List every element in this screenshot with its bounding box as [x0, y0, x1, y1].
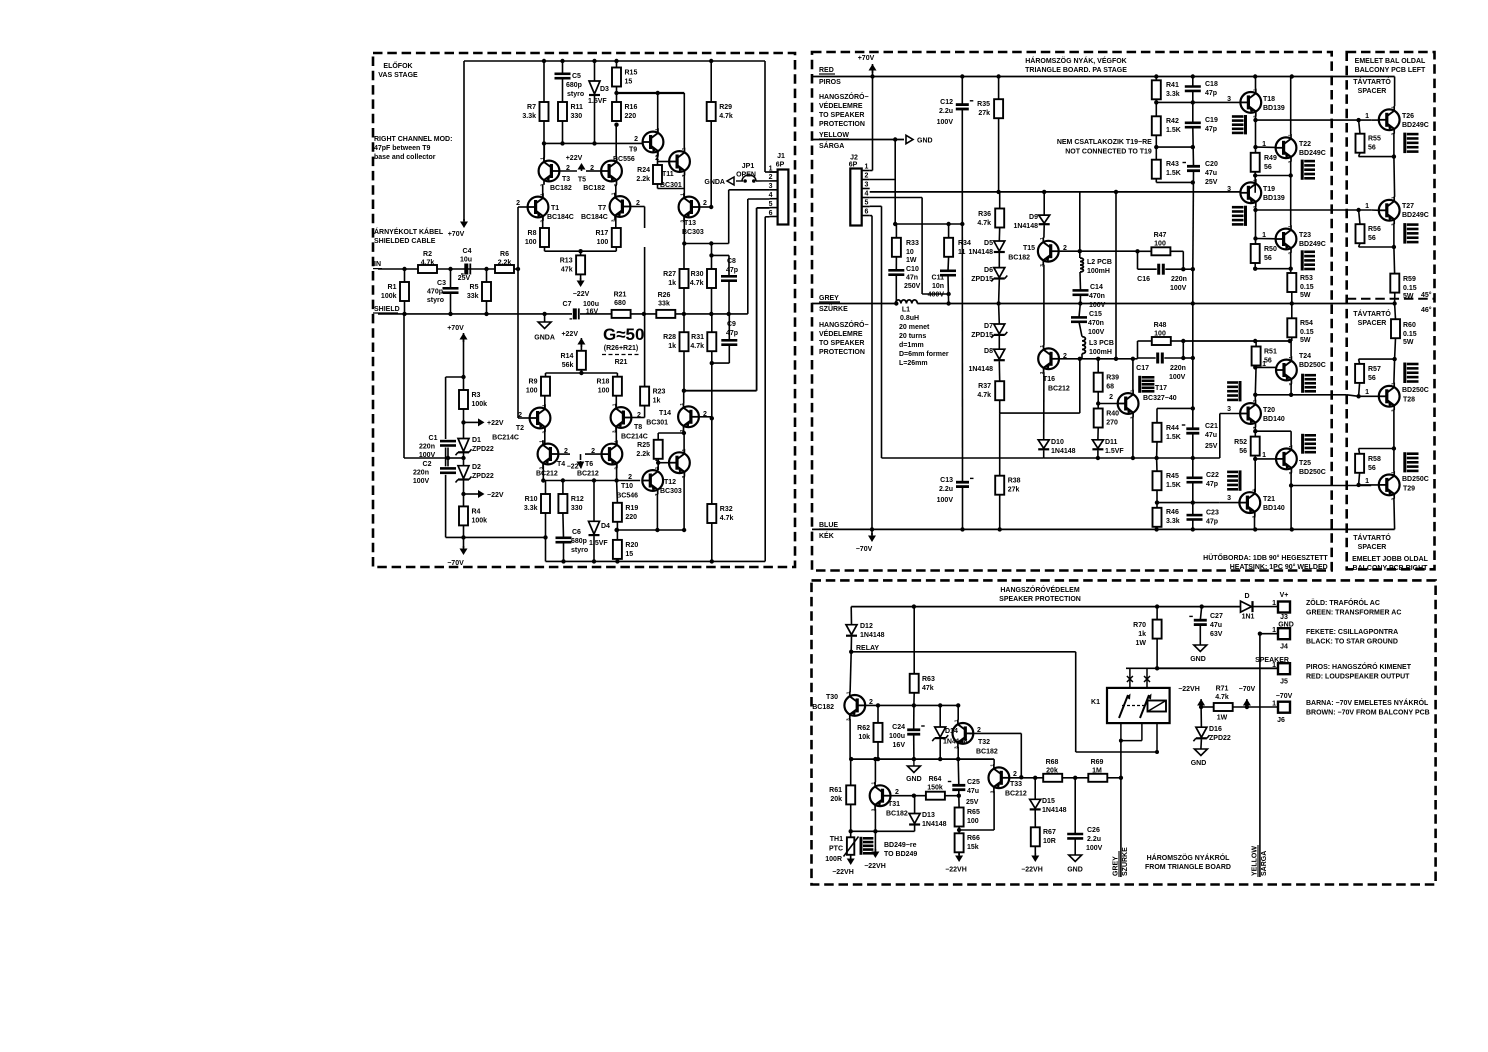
svg-text:1: 1	[1039, 237, 1044, 240]
svg-text:R2: R2	[423, 251, 432, 258]
wire R71 line	[1201, 706, 1277, 708]
svg-text:−22VH: −22VH	[1178, 686, 1200, 693]
wire R52 bottom node	[1254, 456, 1256, 493]
wire pin5 riser	[684, 208, 770, 391]
svg-text:R14: R14	[561, 353, 574, 360]
block border: ELOFOK / VAS STAGE (preamp+VAS) box	[373, 53, 795, 567]
wire T3-T5 base link	[560, 170, 602, 172]
wire RELAY line	[851, 652, 1157, 752]
power flag -70V (R71)	[1239, 686, 1256, 707]
ground GND (C24)	[906, 759, 922, 783]
pin2 labels T1 T7	[516, 200, 640, 207]
svg-text:2: 2	[518, 412, 522, 419]
svg-text:T10: T10	[621, 483, 633, 490]
junction dot R10/R4	[543, 535, 547, 539]
wire R56 top	[1359, 210, 1360, 224]
svg-text:3: 3	[1227, 406, 1231, 413]
wire pin4 riser	[748, 199, 770, 314]
svg-text:1: 1	[1365, 478, 1369, 485]
resistor R34	[944, 238, 971, 257]
svg-text:6: 6	[865, 208, 869, 215]
wire T9 emitter	[657, 93, 659, 132]
svg-text:33k: 33k	[467, 293, 479, 300]
svg-text:3: 3	[1227, 495, 1231, 502]
svg-text:R32: R32	[720, 506, 733, 513]
junction dot R55 top	[1356, 118, 1360, 122]
power flag +70V (triangle board)	[858, 55, 877, 77]
svg-text:47p: 47p	[1206, 481, 1218, 488]
svg-text:R43: R43	[1166, 161, 1179, 168]
svg-text:T33: T33	[1010, 781, 1022, 788]
svg-text:styro: styro	[571, 547, 588, 554]
wire T31 col	[874, 759, 876, 782]
svg-text:R38: R38	[1008, 478, 1021, 485]
wire T26 e col	[1393, 133, 1396, 197]
svg-text:C27: C27	[1210, 613, 1223, 620]
diode D12 1N4148	[846, 623, 885, 639]
power flag -22VH (R71)	[1178, 686, 1205, 707]
junction dots ladder col	[1191, 100, 1195, 149]
svg-text:5W: 5W	[1300, 292, 1311, 299]
power flag -22VH (TH1)	[832, 856, 855, 876]
transistor T19 BD139	[1227, 179, 1285, 209]
wire R53 bottom to output	[1291, 292, 1293, 304]
wire J4 line	[1260, 633, 1277, 635]
svg-text:T22: T22	[1299, 141, 1311, 148]
inductor L3 PCB 100mH	[1082, 337, 1114, 356]
svg-text:1k: 1k	[668, 343, 676, 350]
power flag -22VH (R67)	[1021, 853, 1043, 874]
wire +70V top rail	[464, 60, 765, 62]
wire R44 bottom	[1156, 442, 1158, 458]
wire to J3	[1253, 606, 1278, 608]
transistor T8 BC214C	[611, 403, 648, 440]
svg-text:R39: R39	[1106, 375, 1119, 382]
wire D13 leads	[851, 796, 915, 832]
svg-text:R50: R50	[1264, 246, 1277, 253]
block border: speaker protection box	[812, 580, 1436, 884]
svg-text:400V: 400V	[928, 292, 945, 299]
wire J2 pin1 to +70V	[870, 77, 873, 171]
svg-text:BD250C: BD250C	[1402, 387, 1429, 394]
svg-text:16V: 16V	[893, 742, 906, 749]
wire J1 pin1 riser	[765, 61, 778, 172]
svg-text:5W: 5W	[1403, 339, 1414, 346]
svg-text:1: 1	[1262, 232, 1266, 239]
junction dot R61 bottom	[849, 829, 853, 833]
junction dot grey col	[1119, 776, 1123, 780]
svg-text:+22V: +22V	[561, 331, 578, 338]
svg-text:C16: C16	[1137, 276, 1150, 283]
capacitor C20 47u	[1183, 161, 1218, 186]
svg-text:1N4148: 1N4148	[922, 821, 947, 828]
resistor R41	[1152, 80, 1180, 99]
resistor R18	[597, 377, 622, 396]
wire T18e to balcony (T26 base)	[1256, 119, 1372, 121]
svg-text:C17: C17	[1136, 365, 1149, 372]
junction dots R33 rail	[893, 222, 965, 226]
svg-text:0.15: 0.15	[1403, 331, 1417, 338]
svg-text:1: 1	[1365, 203, 1369, 210]
resistor R8	[525, 228, 549, 247]
svg-text:−22VH: −22VH	[945, 867, 967, 874]
svg-text:1.5VF: 1.5VF	[589, 540, 608, 547]
svg-text:BD250C: BD250C	[1299, 362, 1326, 369]
note NEM CSATLAKOZIK T19-RE	[1057, 139, 1152, 155]
svg-text:6P: 6P	[849, 162, 858, 169]
svg-text:R6: R6	[500, 251, 509, 258]
wire R58 bottom	[1359, 473, 1360, 485]
svg-text:JP1: JP1	[742, 163, 755, 170]
wire T30 emitter	[849, 719, 851, 759]
svg-text:D12: D12	[860, 623, 873, 630]
svg-text:45°: 45°	[1421, 291, 1432, 299]
svg-text:2: 2	[703, 200, 707, 207]
junction dot R45R46	[1155, 500, 1159, 504]
junction dots lower bus	[541, 478, 619, 482]
svg-text:BD250C: BD250C	[1402, 476, 1429, 483]
wire T15T16 base line ext	[1080, 250, 1138, 252]
junction dot T31 e	[873, 829, 877, 833]
svg-text:TÁVTARTÓ: TÁVTARTÓ	[1353, 77, 1391, 86]
wire D9/T15 col	[1043, 192, 1046, 458]
wire D12 col	[850, 607, 852, 652]
svg-text:1: 1	[845, 691, 850, 694]
svg-text:5W: 5W	[1300, 337, 1311, 344]
svg-text:R9: R9	[529, 379, 538, 386]
ground GND flag (yellow)	[906, 135, 933, 144]
svg-text:R4: R4	[472, 508, 481, 515]
capacitor C5	[555, 73, 585, 98]
connector J6 -70V	[1272, 693, 1293, 724]
svg-text:1.5VF: 1.5VF	[1105, 448, 1124, 455]
wire R62 leads	[877, 705, 879, 759]
ground GND (C27)	[1190, 645, 1207, 663]
svg-text:R8: R8	[528, 230, 537, 237]
transistor T10 BC546	[616, 466, 663, 499]
svg-text:100u: 100u	[889, 733, 905, 740]
svg-text:R10: R10	[525, 496, 538, 503]
resistor R11	[558, 102, 583, 121]
heatsink TH1	[861, 837, 873, 855]
svg-text:R49: R49	[1264, 155, 1277, 162]
capacitor C4 (10u inline)	[458, 248, 472, 282]
svg-text:BC184C: BC184C	[581, 214, 608, 221]
wire R15/R16 node thick	[617, 92, 685, 94]
capacitor C25 47u 25V	[948, 779, 980, 806]
svg-text:PIROS: PIROS	[819, 79, 841, 86]
wire R27 bottom col	[683, 288, 685, 314]
wire T5 collector	[615, 125, 617, 158]
resistor R42	[1152, 116, 1181, 135]
svg-text:T1: T1	[551, 205, 559, 212]
power tap +22V (right arrow)	[476, 418, 504, 427]
svg-text:−22VH: −22VH	[1021, 867, 1043, 874]
resistor R66	[955, 833, 980, 852]
capacitor C7 (100u inline on shield)	[563, 301, 599, 319]
power flag -70V (blue)	[856, 529, 876, 553]
wire T33 col	[993, 759, 995, 764]
wire R14 bottom rail	[546, 370, 618, 373]
svg-text:220n: 220n	[1170, 365, 1186, 372]
svg-text:1k: 1k	[653, 398, 661, 405]
svg-text:15: 15	[625, 551, 633, 558]
label RED PIROS	[819, 67, 841, 86]
diode D13 1N4148	[909, 812, 947, 828]
wire T25 e down	[1290, 472, 1292, 529]
svg-text:D3: D3	[600, 86, 609, 93]
transistor T7 BC184C	[581, 192, 630, 222]
svg-text:R45: R45	[1166, 473, 1179, 480]
svg-text:−70V: −70V	[447, 560, 464, 567]
svg-text:GNDA: GNDA	[534, 335, 555, 342]
svg-text:−70V: −70V	[1276, 693, 1293, 700]
svg-text:220n: 220n	[1171, 276, 1187, 283]
svg-text:46°: 46°	[1421, 306, 1432, 314]
svg-text:250V: 250V	[904, 283, 921, 290]
wire T21 base bus	[1157, 502, 1219, 504]
wire R54 leads	[1291, 304, 1293, 342]
svg-text:100V: 100V	[937, 497, 954, 504]
wire C26 leads	[1074, 778, 1076, 855]
wire ladder column	[1192, 77, 1195, 530]
svg-text:330: 330	[571, 505, 583, 512]
wire T24 col	[1290, 341, 1292, 357]
svg-text:D=6mm former: D=6mm former	[899, 351, 949, 358]
junction dots GREY rail	[894, 301, 1294, 305]
svg-text:100: 100	[597, 239, 609, 246]
svg-text:47p: 47p	[1205, 126, 1217, 133]
svg-text:BROWN: −70V FROM BALCONY PCB: BROWN: −70V FROM BALCONY PCB	[1306, 710, 1430, 717]
junction dots T12/T14 nodes	[656, 431, 686, 465]
label HAROMSZOG NYAKROL	[1145, 853, 1231, 871]
transistor T31 BC182	[870, 782, 908, 818]
note ZOLD TRAFOROL AC	[1306, 598, 1401, 617]
svg-text:R67: R67	[1043, 829, 1056, 836]
svg-text:BALCONY PCB RIGHT: BALCONY PCB RIGHT	[1353, 565, 1429, 572]
junction dot T28 e	[1392, 446, 1396, 450]
junction dot D13 top	[912, 794, 916, 798]
svg-text:4.7k: 4.7k	[690, 343, 704, 350]
svg-text:4: 4	[865, 190, 869, 197]
transistor T24 BD250C	[1262, 353, 1326, 386]
wire T21 e down	[1254, 516, 1256, 529]
wire R22 bottom / R23 top	[644, 247, 646, 387]
resistor R71 4.7k 1W	[1214, 686, 1233, 722]
capacitor C13 2.2u	[937, 477, 974, 504]
transistor T4 BC212	[536, 440, 568, 478]
svg-text:D13: D13	[922, 812, 935, 819]
note PIROS HANGSZORO KIMENET	[1306, 662, 1412, 681]
wire T2 col	[544, 396, 546, 408]
svg-text:C19: C19	[1205, 117, 1218, 124]
svg-text:SPACER: SPACER	[1358, 320, 1387, 327]
capacitor C8	[721, 258, 738, 281]
wire bypass rectangle	[446, 377, 464, 537]
wire T8 e / T6 col	[615, 428, 617, 444]
junction dots T9 base line	[542, 141, 597, 145]
resistor R43	[1152, 160, 1181, 179]
svg-text:SÁRGA: SÁRGA	[1259, 851, 1268, 876]
svg-text:SPACER: SPACER	[1358, 544, 1387, 551]
svg-text:47u: 47u	[1210, 622, 1222, 629]
transistor T27 BD249C	[1365, 196, 1429, 226]
svg-text:BD140: BD140	[1263, 505, 1285, 512]
junction dots BLUE rail	[870, 527, 1294, 531]
svg-text:R53: R53	[1300, 275, 1313, 282]
svg-text:ZPD15: ZPD15	[971, 332, 993, 339]
svg-text:C2: C2	[423, 461, 432, 468]
svg-text:styro: styro	[427, 297, 444, 304]
svg-text:R56: R56	[1368, 226, 1381, 233]
svg-text:+22V: +22V	[566, 155, 583, 162]
junction dots bus458	[1096, 456, 1195, 460]
svg-text:56: 56	[1368, 465, 1376, 472]
wire R34 col	[947, 224, 950, 304]
svg-text:T26: T26	[1402, 113, 1414, 120]
svg-text:100R: 100R	[825, 856, 842, 863]
svg-text:10u: 10u	[460, 257, 472, 264]
transistor T25 BD250C	[1262, 445, 1326, 476]
svg-text:−22V: −22V	[567, 464, 584, 471]
svg-text:0.15: 0.15	[1300, 284, 1314, 291]
power flag -22VH (R66)	[945, 853, 967, 874]
wire BLUE -70V rail	[812, 528, 1395, 530]
block border: balcony PCB box	[1347, 52, 1435, 569]
svg-text:4.7k: 4.7k	[421, 260, 435, 267]
junction dot R57 bottom	[1356, 394, 1360, 398]
junction dot T26 e	[1392, 154, 1396, 158]
svg-text:BC556: BC556	[613, 156, 635, 163]
wire T20e to T25 col	[1255, 431, 1291, 445]
heatsink T24	[1303, 374, 1316, 393]
resistor R57	[1355, 364, 1381, 383]
svg-text:2.2u: 2.2u	[939, 486, 953, 493]
wire T18 base line	[1156, 101, 1240, 103]
svg-text:−22VH: −22VH	[832, 869, 854, 876]
wire T26 base	[1371, 119, 1379, 121]
wire R9 top/R18 top	[546, 373, 618, 377]
svg-text:BD139: BD139	[1263, 195, 1285, 202]
wire T16 base line	[1059, 358, 1137, 360]
power flag -70V (bias chain)	[447, 537, 467, 567]
svg-text:BC182: BC182	[550, 185, 572, 192]
svg-text:2.2k: 2.2k	[498, 260, 512, 267]
svg-text:56: 56	[1368, 145, 1376, 152]
wire T15 base	[1059, 250, 1080, 252]
svg-text:R55: R55	[1368, 136, 1381, 143]
junction dot T13 base	[709, 205, 713, 209]
resistor R68 20k	[1043, 759, 1062, 782]
label YELLOW SARGA rotated	[1252, 845, 1269, 877]
transistor T2 BC214C	[492, 404, 550, 442]
junction dots +70V rail	[870, 74, 1294, 78]
svg-text:D11: D11	[1105, 439, 1118, 446]
resistor R2	[418, 251, 437, 273]
wire pin6 riser	[765, 217, 769, 562]
wire to T29 base	[1291, 485, 1371, 487]
svg-text:D: D	[1244, 593, 1249, 600]
transistor T26 BD249C	[1365, 106, 1429, 136]
svg-text:R15: R15	[625, 70, 638, 77]
svg-text:100V: 100V	[1089, 302, 1106, 309]
svg-text:GND: GND	[1278, 622, 1294, 629]
wire T32 e	[957, 747, 959, 759]
wire T33 base line	[1009, 777, 1043, 779]
svg-text:R13: R13	[560, 257, 573, 264]
transistor T23 BD249C	[1262, 225, 1326, 255]
wire D14 leads	[939, 705, 941, 759]
wire relay contact common	[1126, 667, 1157, 669]
wire T9 col to R24/T11 base	[658, 153, 670, 166]
wire T30 col	[850, 652, 851, 692]
capacitor C6	[556, 529, 589, 554]
transistor T29 BD250C	[1365, 471, 1429, 501]
junction dot R70 bottom	[1155, 666, 1159, 670]
svg-text:6P: 6P	[776, 162, 785, 169]
wire R31 col	[711, 314, 713, 504]
wire T21 base line	[1219, 502, 1239, 504]
transistor T3 BC182	[539, 157, 572, 192]
capacitor C24 100u 16V	[889, 724, 925, 749]
wire T8 col	[615, 396, 617, 407]
resistor R19	[613, 503, 638, 522]
wire T31 base line	[891, 795, 926, 797]
svg-text:C5: C5	[572, 73, 581, 80]
resistor R49	[1251, 153, 1277, 172]
svg-text:R44: R44	[1166, 425, 1179, 432]
wire pin3 riser	[729, 190, 770, 244]
svg-text:2.2k: 2.2k	[636, 176, 650, 183]
junction dot C25 bottom	[957, 794, 961, 798]
wire T23 base	[1256, 238, 1276, 240]
wire C5/R7/R11/D3/R15/R29 leads	[544, 61, 711, 207]
wire R19/R20 node	[617, 529, 685, 531]
svg-text:47pF between T9: 47pF between T9	[374, 145, 431, 152]
wire T24 e	[1255, 384, 1331, 395]
svg-text:FEKETE: CSILLAGPONTRA: FEKETE: CSILLAGPONTRA	[1306, 629, 1398, 636]
wire T31 e	[874, 809, 876, 852]
junction dots bottom rail	[561, 559, 714, 563]
svg-text:d=1mm: d=1mm	[899, 342, 924, 349]
resistor R3	[459, 390, 487, 409]
svg-text:SPACER: SPACER	[1358, 88, 1387, 95]
svg-text:1N4148: 1N4148	[968, 366, 993, 373]
connector J1 6P	[769, 153, 789, 225]
svg-text:R69: R69	[1091, 759, 1104, 766]
svg-text:56: 56	[1239, 448, 1247, 455]
svg-text:3: 3	[845, 718, 850, 721]
transistor T21 BD140	[1227, 488, 1285, 518]
resistor R55	[1356, 134, 1381, 153]
svg-text:3.3k: 3.3k	[1166, 91, 1180, 98]
svg-text:100k: 100k	[381, 293, 397, 300]
resistor R46	[1153, 508, 1180, 527]
svg-text:1: 1	[611, 192, 616, 195]
svg-text:1k: 1k	[668, 280, 676, 287]
junction dots top rail	[542, 59, 714, 63]
wire C24 leads	[913, 705, 915, 759]
resistor R26 (feedback)	[656, 292, 675, 318]
power flag +22V (R14)	[561, 331, 585, 351]
junction dots T16 base line	[1078, 357, 1136, 361]
wire lower bus y480	[543, 480, 640, 482]
wire C3 leads	[450, 269, 452, 314]
junction dots R71	[1199, 705, 1249, 709]
svg-text:C13: C13	[940, 477, 953, 484]
svg-text:R25: R25	[637, 442, 650, 449]
ground GND (C26)	[1067, 855, 1083, 874]
